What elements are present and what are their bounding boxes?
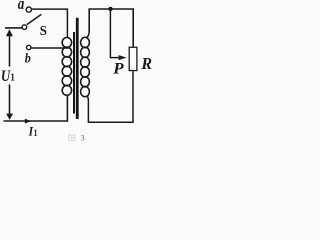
svg-text:S: S (40, 23, 47, 38)
svg-text:1: 1 (34, 127, 38, 138)
svg-text:R: R (140, 55, 152, 73)
svg-text:b: b (25, 51, 31, 66)
svg-text:3: 3 (81, 133, 85, 141)
svg-text:a: a (18, 0, 25, 13)
svg-text:1: 1 (10, 72, 14, 84)
svg-text:P: P (112, 59, 124, 77)
